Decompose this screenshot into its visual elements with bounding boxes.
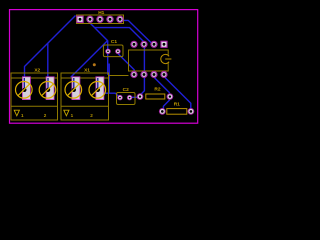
wire IC pad to R1.right	[165, 78, 191, 109]
wire IC pad to R2.right	[154, 78, 169, 93]
connector H1 outline	[77, 15, 124, 24]
X2 screw 1	[15, 82, 32, 99]
svg-text:C2: C2	[123, 87, 129, 93]
U1 pad top 1	[130, 41, 137, 48]
terminal block X1 outline	[61, 73, 109, 120]
silk bridge X1 to U1	[109, 75, 129, 77]
R2 pad 2	[167, 93, 174, 100]
resistor R2 body	[146, 94, 165, 99]
U1 pad top 4 (square)	[160, 41, 167, 48]
X2 pin labels	[21, 113, 47, 118]
C1 pad 2	[115, 49, 120, 54]
U1 pad bottom 4	[160, 71, 167, 78]
via	[93, 63, 96, 66]
H1 pin 3	[96, 16, 103, 23]
svg-text:2: 2	[90, 113, 93, 118]
wire C2.right to R2.left	[130, 96, 137, 98]
wire X1.2 riser to C2	[108, 64, 110, 94]
svg-text:X1: X1	[84, 68, 90, 74]
X1 pad 1	[72, 77, 80, 100]
U1 pad bottom 1	[130, 71, 137, 78]
wire X2.2 riser	[47, 43, 49, 84]
U1 pad top 3	[150, 41, 157, 48]
C1 pad 1	[105, 49, 110, 54]
X2 screw 2	[39, 82, 56, 99]
H1 pin 4	[106, 16, 113, 23]
svg-text:C1: C1	[111, 39, 117, 45]
wire horizontal to IC pad and down to R2.left	[95, 28, 145, 95]
U1 pad bottom 3	[150, 71, 157, 78]
X1 screw 1	[65, 82, 82, 99]
capacitor C1 outline	[103, 45, 123, 57]
op-amp U1 outline (DIP-8)	[129, 50, 169, 71]
H1 pin 2	[86, 16, 93, 23]
X2 pad 2	[46, 77, 54, 100]
wire X1.2 to C2.left	[100, 93, 120, 97]
H1 pin 1 (square pad)	[76, 16, 83, 23]
U1 pad top 2	[140, 41, 147, 48]
capacitor C2 outline	[117, 93, 136, 105]
board outline	[10, 10, 198, 124]
X1 pad 2	[96, 77, 104, 100]
terminal block X2 outline	[11, 73, 58, 120]
resistor R1 body	[167, 109, 187, 115]
svg-text:2: 2	[44, 113, 47, 118]
wire R2.right to R1.left	[163, 100, 169, 110]
C2 pad 1	[117, 95, 122, 100]
svg-text:R1: R1	[174, 101, 180, 107]
wire H1.5 to IC top pad	[124, 20, 155, 45]
U1 pad bottom 2	[140, 71, 147, 78]
X1 pin1 triangle	[64, 110, 69, 116]
X2 pin1 triangle	[14, 110, 19, 116]
wire X2.1 to H1.1 (bottom layer)	[25, 16, 76, 85]
X1 pin labels	[71, 113, 94, 118]
svg-text:R2: R2	[154, 87, 160, 93]
R1 pad 2	[188, 108, 195, 115]
U1 notch marker	[161, 54, 172, 63]
svg-text:1: 1	[21, 113, 24, 118]
svg-text:H1: H1	[98, 10, 104, 16]
X2 pad 1	[22, 77, 30, 100]
wire C1.2 to IC bottom pad	[118, 54, 134, 75]
wire H1.2 to C1.1	[90, 23, 108, 51]
X1 screw 2	[89, 82, 106, 99]
R2 pad 1	[137, 93, 144, 100]
wire X1.1 diagonal	[71, 41, 108, 77]
R1 pad 1	[159, 108, 166, 115]
H1 pin 5	[116, 16, 123, 23]
svg-text:X2: X2	[34, 68, 40, 74]
wire C1.1 down	[107, 51, 109, 75]
svg-text:1: 1	[71, 113, 74, 118]
C2 pad 2	[127, 95, 132, 100]
